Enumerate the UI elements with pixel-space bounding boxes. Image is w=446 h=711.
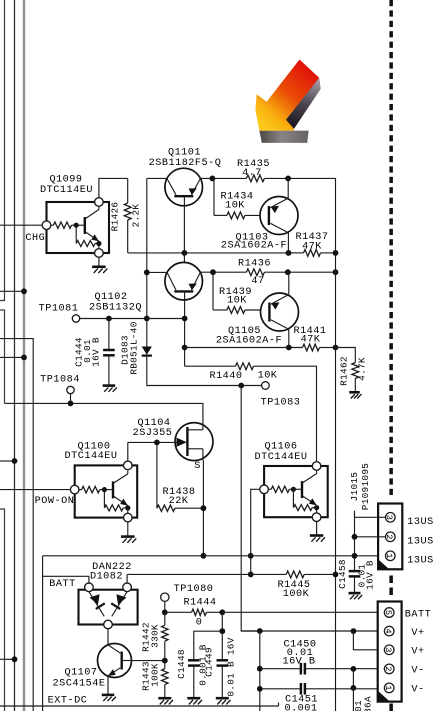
svg-text:J1015: J1015: [349, 472, 360, 502]
svg-text:4: 4: [383, 629, 393, 634]
label 13US pin1: [407, 556, 433, 567]
resistor R1437: [304, 249, 321, 256]
diode D1082 right element: [111, 592, 127, 617]
svg-text:47K: 47K: [301, 334, 321, 345]
label 13US pin2: [407, 537, 433, 548]
wire C1450 rail vertical: [259, 631, 261, 711]
wire Q1103 emitter up: [287, 178, 289, 198]
wire Q1100 emitter to ground: [127, 522, 129, 536]
node Q1103 collector on 253 line: [286, 250, 292, 256]
wire Q1105 emitter up: [288, 272, 290, 294]
pin circle BATT-1: [383, 683, 394, 693]
label D1083: [120, 335, 131, 365]
label C1450: [283, 640, 316, 651]
svg-text:R1426: R1426: [110, 202, 121, 232]
wire R1443 to ground: [164, 685, 166, 698]
capacitor C1448: [188, 660, 200, 698]
wire Q1104 source down: [202, 461, 204, 556]
wire Q1105 collector down: [288, 329, 290, 347]
svg-text:R1444: R1444: [183, 598, 216, 609]
label R1462: [339, 356, 350, 386]
label D1082: [90, 572, 123, 583]
node C1444 tap: [106, 316, 112, 322]
svg-text:BATT: BATT: [405, 609, 431, 620]
svg-text:47: 47: [251, 276, 264, 287]
svg-text:TP1083: TP1083: [261, 398, 301, 409]
node on gray bus (y=291): [21, 288, 27, 294]
wire R1435 to rail corner: [264, 178, 335, 253]
wire R1445 to rail: [304, 573, 335, 575]
label TP1084: [40, 374, 80, 385]
label BATT pin5: [405, 609, 431, 620]
transistor Q1105: [261, 293, 299, 331]
svg-text:2SA1602A-F: 2SA1602A-F: [216, 336, 282, 347]
wire R1426 to Q1101/Q1102 node line: [128, 252, 289, 254]
wire R1439 to Q1105 base: [245, 309, 270, 311]
label BATT (net): [49, 579, 75, 590]
node rail R1445: [333, 572, 339, 578]
svg-text:100K: 100K: [150, 663, 161, 687]
node Q1107 base node: [162, 658, 168, 664]
transistor Q1102: [165, 262, 203, 300]
node x147 y272: [144, 270, 150, 276]
node V- upper right: [351, 666, 357, 672]
diode D1082 left element: [89, 592, 105, 617]
svg-text:DTC144EU: DTC144EU: [65, 451, 118, 462]
connector J1015 box: [378, 504, 402, 570]
wire R1441 to rail: [320, 347, 336, 349]
node V- upper left: [257, 666, 263, 672]
svg-text:C1458: C1458: [337, 559, 348, 589]
ground below C1448: [187, 698, 202, 704]
wire stub to gray bus (y=357): [0, 356, 24, 358]
wire R1 to base node Q1100: [100, 489, 105, 491]
label 22K (R1438): [169, 496, 189, 507]
node BATT line tap: [162, 609, 168, 615]
svg-text:1: 1: [384, 553, 394, 558]
label R1442: [141, 622, 152, 652]
wire Q1102 emitter to R1436: [200, 271, 246, 273]
wire Q1102 collector from node: [183, 253, 185, 263]
label Q1107: [64, 668, 97, 679]
node S line to 13US: [201, 553, 207, 559]
label V+ pin4: [411, 628, 424, 639]
wire R1437 left segment: [289, 252, 304, 254]
node pin2 junction: [352, 534, 358, 540]
wire Q1107 emitter to ground: [107, 676, 109, 695]
svg-text:V+: V+: [411, 647, 424, 658]
svg-text:16V B: 16V B: [282, 657, 315, 668]
wire left bus line 1 (upper segment): [0, 0, 5, 301]
pin circle J1015-1: [384, 551, 395, 561]
wire Q1101 emitter to R1435: [200, 177, 246, 179]
pin circle BATT-3: [383, 645, 394, 655]
pin circle Q1106 emitter: [312, 513, 321, 522]
node R1438 tap: [154, 440, 160, 446]
pin circle Q1106 collector: [312, 462, 321, 471]
transistor element inside Q1106: [293, 470, 316, 513]
resistor R1438: [157, 505, 175, 511]
wire Q1102 base vertical: [184, 300, 186, 366]
label R1435: [237, 159, 270, 170]
resistor R1442: [162, 625, 168, 641]
svg-text:4.7: 4.7: [242, 168, 262, 179]
wire R1 to base node Q1099: [72, 224, 77, 226]
node R1441 line left: [182, 345, 188, 351]
digital transistor Q1106 box: [264, 466, 328, 517]
label R1441: [293, 326, 326, 337]
wire rail to R1462: [336, 348, 356, 363]
node C1448 branch: [219, 609, 225, 615]
ground below Q1107: [102, 695, 116, 701]
resistor R1 inside Q1106: [271, 486, 289, 492]
svg-text:V-: V-: [411, 685, 424, 696]
label 2SB1182F5-Q: [149, 158, 222, 169]
capacitor C1450: [301, 663, 305, 675]
wire stub to bus line 2 (bottom): [0, 658, 15, 660]
svg-text:100K: 100K: [283, 589, 310, 600]
wire CHG input line: [0, 224, 42, 226]
arrow logo (3D red-yellow down-left arrow): [255, 60, 320, 143]
label 0.01 (C1444): [82, 339, 93, 363]
label P1091095: [360, 463, 371, 510]
svg-text:DTC114EU: DTC114EU: [40, 185, 93, 196]
wire Q1107 base to R1443 node: [131, 660, 165, 662]
label Q1106: [264, 441, 297, 452]
label R1443: [141, 661, 152, 691]
svg-text:10K: 10K: [258, 370, 278, 381]
wire R1441 line left: [185, 347, 303, 349]
ground below C1449: [216, 698, 231, 704]
page boundary dashed line: [389, 0, 393, 711]
resistor R1434: [227, 212, 245, 219]
svg-text:2: 2: [383, 666, 393, 671]
svg-text:2.2K: 2.2K: [131, 204, 142, 228]
label Q1101: [168, 148, 201, 159]
node Q1102 base at TP1081 line: [182, 316, 188, 322]
node rail y=347: [333, 345, 339, 351]
label 2SA1602A-F (Q1103): [221, 240, 287, 251]
label R1437: [295, 232, 328, 243]
label TP1081: [39, 303, 79, 314]
resistor R1439 branch: [213, 272, 227, 310]
label 10K (R1439): [227, 296, 247, 307]
wire Q1101 left lead: [147, 177, 167, 179]
resistor R1 inside Q1099: [53, 222, 71, 228]
label S (Q1104 source): [194, 461, 201, 472]
label 36A (cut): [363, 696, 374, 711]
svg-text:V+: V+: [411, 628, 424, 639]
resistor R1436: [246, 269, 264, 276]
label CHG: [25, 233, 45, 244]
wire TP1080 to R1442: [164, 601, 166, 625]
test point TP1080 circle: [161, 593, 169, 601]
wire J1015 pin1 riser: [354, 537, 356, 571]
capacitor C1449: [217, 631, 229, 698]
svg-text:36A: 36A: [363, 696, 374, 711]
svg-text:TP1080: TP1080: [174, 584, 214, 595]
node rail y=253: [333, 250, 339, 256]
resistor R1426: [124, 178, 131, 253]
wire left bus line 3 (gray): [23, 0, 25, 711]
capacitor C1444: [103, 319, 115, 386]
wire TP1084 stem: [70, 394, 72, 404]
label 0.01 (C1450): [287, 648, 313, 659]
node Q1101 base / Q1102 collector: [182, 250, 188, 256]
svg-text:C1449: C1449: [204, 647, 215, 677]
label 0.001 B (C1448): [197, 644, 208, 686]
label R1436: [238, 258, 271, 269]
svg-text:1: 1: [383, 685, 393, 690]
transistor element inside Q1099: [76, 206, 99, 248]
svg-text:POW-ON: POW-ON: [35, 496, 75, 507]
label 4.7K (R1462): [357, 357, 368, 381]
test point TP1084 circle: [67, 386, 74, 393]
node on bus line 2 (y=659): [12, 656, 18, 662]
digital transistor Q1100 box: [75, 465, 138, 517]
wire Q1106 emitter to ground: [316, 522, 318, 536]
svg-text:3: 3: [384, 515, 394, 520]
test point TP1083 circle: [262, 382, 270, 390]
node pin1 junction: [352, 553, 358, 559]
test point TP1081 circle: [72, 315, 79, 322]
svg-text:22K: 22K: [169, 496, 189, 507]
label 16V B (C1444): [91, 337, 102, 367]
node on bus line 2 (y=461): [12, 458, 18, 464]
label 47K (R1437): [302, 242, 322, 253]
wire left bus line 2: [14, 0, 16, 711]
label 10K (R1440): [258, 370, 278, 381]
resistor R1441: [303, 344, 320, 351]
svg-text:R1462: R1462: [339, 356, 350, 386]
ground below Q1099: [92, 267, 107, 273]
svg-text:BATT: BATT: [49, 579, 75, 590]
label 47K (R1441): [301, 334, 321, 345]
node R1438 right: [201, 505, 207, 511]
connector BATT box: [378, 602, 402, 702]
ground below R1462: [349, 392, 361, 398]
wire Q1103 collector down: [287, 233, 289, 253]
wire Q1099 collector to R1426: [99, 178, 128, 197]
wire R1440 line: [185, 363, 317, 462]
pin circle J1015-3: [384, 513, 395, 523]
svg-text:3: 3: [383, 647, 393, 652]
svg-text:P1091095: P1091095: [360, 463, 371, 510]
diode D1083: [142, 347, 152, 356]
node on gray bus (y=357): [21, 355, 27, 361]
ground below C1444: [103, 386, 117, 392]
label 16V B (C1450): [282, 657, 315, 668]
svg-text:EXT-DC: EXT-DC: [48, 696, 88, 707]
label V- pin2: [411, 666, 424, 677]
pin circle DAN222 right: [123, 583, 132, 592]
node V- lower left: [257, 686, 263, 692]
label 4.7 (R1435): [242, 168, 262, 179]
wire stub to gray bus (y=291): [0, 290, 24, 292]
wire D1083 cathode down: [147, 356, 262, 386]
diode pair DAN222 D1082 box: [79, 590, 138, 625]
node R1439 tap: [210, 269, 216, 275]
wire Q1101 base down to 253 line: [183, 206, 185, 253]
wire R1434 to Q1103 base: [245, 214, 269, 216]
wire stub to bus line 2 at CHG area: [0, 460, 15, 462]
wire V- line lower: [260, 688, 378, 690]
wire J1015 pin3: [355, 511, 386, 537]
wire R1445 line left: [127, 573, 286, 575]
pin circle Q1100 collector: [124, 461, 133, 470]
svg-text:RB051L-40: RB051L-40: [129, 321, 140, 374]
node Q1106 input on 13US line: [248, 553, 254, 559]
wire left bus line 1 (middle segment): [0, 310, 5, 403]
label R1426: [110, 202, 121, 232]
svg-text:2SC4154E: 2SC4154E: [53, 679, 106, 690]
ground below Q1106: [310, 536, 325, 542]
pin circle Q1100 input: [70, 485, 79, 494]
ground below Q1100: [121, 537, 136, 543]
svg-text:Q1107: Q1107: [64, 668, 97, 679]
label Q1103: [235, 232, 268, 243]
transistor Q1101: [165, 168, 203, 206]
resistor R2 inside Q1100: [104, 490, 130, 511]
label DTC114EU (Q1099): [40, 185, 93, 196]
label 10K (R1434): [225, 201, 245, 212]
node x147 y318 (TP1081 line): [144, 316, 150, 322]
wire DAN222 common to Q1107: [107, 629, 109, 645]
label 0 (R1444): [196, 617, 203, 628]
svg-text:0.001: 0.001: [284, 703, 317, 711]
pin circle Q1099 collector: [95, 198, 104, 207]
pin circle BATT-2: [383, 664, 394, 674]
pin circle DAN222 common: [104, 620, 113, 629]
wire Q1102 left lead to node: [147, 271, 167, 273]
svg-text:13US: 13US: [407, 537, 433, 548]
resistor R1435: [246, 175, 264, 182]
wire pins 1-2 jumper: [352, 669, 354, 711]
capacitor C1458: [349, 571, 361, 593]
digital transistor Q1099 box: [47, 202, 110, 253]
wire Q1104 gate line: [128, 441, 177, 443]
label 2.2K (R1426): [131, 204, 142, 228]
label C1458: [337, 559, 348, 589]
svg-text:D1082: D1082: [90, 572, 123, 583]
wire J1015 pin2: [355, 536, 386, 538]
svg-text:Q1101: Q1101: [168, 148, 201, 159]
svg-text:2: 2: [384, 534, 394, 539]
wire POW-ON input line: [0, 489, 70, 491]
svg-text:330K: 330K: [150, 624, 161, 648]
transistor element inside Q1100: [104, 471, 127, 514]
label Q1099: [49, 175, 82, 186]
node TP1083 branch: [238, 383, 244, 389]
label R1438: [162, 487, 195, 498]
label 0.001 (C1451): [284, 703, 317, 711]
wire 13US line: [43, 555, 379, 557]
label C1448: [176, 649, 187, 679]
wire Q1099 emitter to ground: [98, 257, 100, 266]
node base Q1100: [102, 487, 107, 492]
label POW-ON: [35, 496, 75, 507]
label 100K (R1445): [283, 589, 310, 600]
label C1444: [74, 337, 85, 367]
label 2SJ355: [133, 428, 173, 439]
label J1015: [349, 472, 360, 502]
node TP1084: [68, 401, 74, 407]
wire Q1106 input from 13US node: [251, 489, 260, 574]
capacitor C1451: [301, 683, 305, 695]
pin circle DAN222 left: [85, 583, 94, 592]
ground below C1458: [349, 593, 363, 599]
label R1444: [183, 598, 216, 609]
wire TP1081 line: [80, 318, 185, 320]
label 0.01 B 16V (C1449): [225, 637, 236, 696]
node R1434 tap: [210, 176, 216, 182]
label DAN222: [92, 562, 132, 573]
wire TP1084 drain line: [5, 403, 203, 424]
node V+ at C1450 rail: [257, 628, 263, 634]
wire BATT net to DAN222: [43, 576, 89, 583]
svg-text:TP1081: TP1081: [39, 303, 79, 314]
node base Q1106: [291, 487, 296, 492]
node Q1105 emitter on 272 line: [285, 269, 291, 275]
pin circle BATT-5: [383, 608, 394, 618]
label DTC144EU (Q1100): [65, 451, 118, 462]
svg-text:0: 0: [196, 617, 203, 628]
label TP1080: [174, 584, 214, 595]
label Q1100: [77, 441, 110, 452]
label V+ pin3: [411, 647, 424, 658]
label TP1083: [261, 398, 301, 409]
wire R1437 right to rail: [321, 252, 336, 254]
wire V+ line: [241, 630, 378, 632]
wire TP1083 vertical: [241, 386, 260, 632]
node Q1105 collector on 347 line: [286, 345, 292, 351]
svg-text:16V B: 16V B: [91, 337, 102, 367]
svg-text:2SB1132Q: 2SB1132Q: [89, 302, 142, 313]
svg-text:2SJ355: 2SJ355: [133, 428, 173, 439]
resistor R1462: [352, 363, 359, 379]
wire left bus line 4: [0, 339, 33, 711]
svg-text:TP1084: TP1084: [40, 374, 80, 385]
svg-text:DTC144EU: DTC144EU: [255, 452, 308, 463]
pin circle Q1099 input: [42, 221, 51, 230]
svg-text:V-: V-: [411, 666, 424, 677]
label R1445: [277, 580, 310, 591]
resistor R1443: [162, 661, 168, 685]
wire R1442 to base node: [164, 641, 166, 660]
transistor Q1103: [260, 197, 298, 235]
svg-text:2SB1182F5-Q: 2SB1182F5-Q: [149, 158, 222, 169]
pin circle BATT-4: [383, 626, 394, 636]
wire Q1100 collector to gate line: [127, 442, 129, 461]
label 2SB1132Q: [89, 302, 142, 313]
label 2SC4154E: [53, 679, 106, 690]
transistor Q1107: [98, 644, 132, 678]
ground below R1443: [158, 698, 173, 704]
resistor R1444: [192, 609, 207, 615]
svg-text:Q1106: Q1106: [264, 441, 297, 452]
pin circle Q1106 input: [260, 485, 269, 494]
svg-text:0.01 B 16V: 0.01 B 16V: [225, 637, 236, 696]
label Q1105: [228, 326, 261, 337]
svg-text:CHG: CHG: [25, 233, 45, 244]
label 330K (R1442): [150, 624, 161, 648]
label 01 (cut): [353, 700, 364, 711]
svg-text:2SA1602A-F: 2SA1602A-F: [221, 240, 287, 251]
wire R1438 to source line: [175, 507, 204, 509]
wire left bus line 1 (lower segment): [0, 509, 5, 711]
wire left bus line 5 (from 13US line): [42, 556, 44, 711]
node base Q1099: [74, 223, 79, 228]
